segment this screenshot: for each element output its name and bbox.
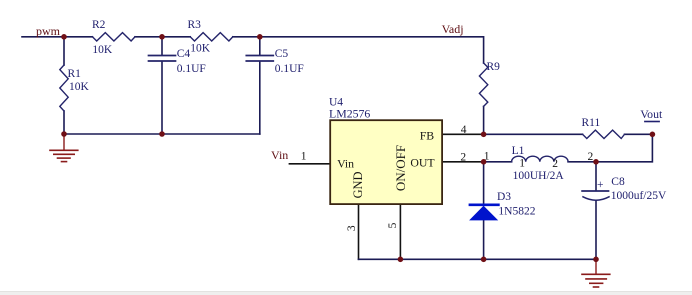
capacitor C5 xyxy=(246,48,303,75)
wire R2 to R3 xyxy=(135,36,190,38)
svg-text:1000uf/25V: 1000uf/25V xyxy=(611,190,667,202)
svg-text:R2: R2 xyxy=(92,19,106,31)
wire R1 bottom lead xyxy=(63,111,65,134)
junction at L1/C8 node xyxy=(593,159,599,165)
junction at D3 bottom rail xyxy=(481,257,487,263)
svg-text:C4: C4 xyxy=(177,48,191,60)
svg-text:OUT: OUT xyxy=(410,156,435,170)
wire OUT to L1 xyxy=(484,161,512,163)
resistor R9 xyxy=(479,61,500,106)
svg-text:10K: 10K xyxy=(190,43,211,55)
op-amp U4 LM2576 body xyxy=(329,97,442,205)
wire bottom rail left xyxy=(64,133,260,135)
wire C4 top lead xyxy=(161,37,163,55)
node Vout power port xyxy=(640,107,663,122)
junction at C4 bottom node xyxy=(159,131,165,137)
resistor R3 xyxy=(188,19,233,55)
capacitor C8 (polarized) xyxy=(582,176,667,202)
svg-text:Vin: Vin xyxy=(337,156,354,170)
bottom scrollbar strip xyxy=(0,291,692,295)
svg-text:1N5822: 1N5822 xyxy=(498,206,535,218)
svg-text:R9: R9 xyxy=(487,61,501,73)
diode D3 1N5822 xyxy=(470,191,536,220)
svg-text:R3: R3 xyxy=(188,19,202,31)
svg-text:L1: L1 xyxy=(512,145,525,157)
svg-text:ON/OFF: ON/OFF xyxy=(393,145,408,191)
junction at OUT/D3 node xyxy=(481,159,487,165)
svg-text:Vadj: Vadj xyxy=(442,22,464,36)
wire pin1 stub xyxy=(289,163,330,165)
svg-text:1: 1 xyxy=(519,158,525,170)
svg-text:2: 2 xyxy=(588,151,594,163)
resistor R11 xyxy=(582,117,625,139)
wire OUT pin stub xyxy=(442,161,484,163)
svg-text:FB: FB xyxy=(420,128,435,142)
junction at R2/R3/C4 node xyxy=(159,34,165,40)
wire pin3 stub xyxy=(358,204,360,259)
svg-text:C8: C8 xyxy=(611,176,625,188)
svg-text:5: 5 xyxy=(387,222,399,228)
svg-text:LM2576: LM2576 xyxy=(329,107,370,121)
ground (left, under R1) xyxy=(50,134,78,162)
svg-text:3: 3 xyxy=(346,225,358,231)
svg-text:2: 2 xyxy=(552,158,558,170)
wire C5 top lead xyxy=(259,37,261,55)
svg-text:+: + xyxy=(597,179,604,191)
junction at R1/ground node xyxy=(61,131,67,137)
wire R1 top lead xyxy=(63,37,65,65)
wire pin5 stub xyxy=(399,204,401,259)
svg-text:4: 4 xyxy=(461,124,467,136)
wire pwm input segment xyxy=(22,36,92,38)
svg-text:GND: GND xyxy=(351,172,365,199)
svg-text:pwm: pwm xyxy=(36,24,61,38)
wire Vout node down to output rail xyxy=(596,134,652,162)
capacitor C4 xyxy=(149,48,206,75)
junction at Vout node xyxy=(650,132,656,138)
svg-text:1: 1 xyxy=(301,151,307,163)
inductor L1 xyxy=(512,145,568,182)
junction at C8 bottom/ground xyxy=(593,257,599,263)
svg-text:0.1UF: 0.1UF xyxy=(177,63,206,75)
junction at pin5/bottom rail xyxy=(398,257,404,263)
wire C4 bottom lead xyxy=(161,62,163,134)
wire FB to R11 xyxy=(484,133,583,135)
svg-text:C5: C5 xyxy=(275,48,289,60)
junction at pwm/R1/R2 node xyxy=(61,34,67,40)
svg-text:R1: R1 xyxy=(68,68,82,80)
svg-text:0.1UF: 0.1UF xyxy=(275,63,304,75)
svg-text:D3: D3 xyxy=(497,191,511,203)
ground (right, under C8) xyxy=(582,259,610,287)
svg-text:Vin: Vin xyxy=(271,148,288,162)
wire bottom rail right xyxy=(359,258,597,260)
wire R9 bottom lead xyxy=(483,106,485,134)
wire FB pin stub xyxy=(442,133,484,135)
wire C8 bottom lead xyxy=(595,201,597,259)
svg-text:Vout: Vout xyxy=(640,107,663,121)
resistor R2 xyxy=(92,19,135,56)
svg-text:10K: 10K xyxy=(92,44,113,56)
junction at FB/R9 node xyxy=(481,132,487,138)
junction at R3/C5 node xyxy=(257,34,263,40)
svg-text:10K: 10K xyxy=(69,81,90,93)
wire C8 top lead xyxy=(595,162,597,191)
wire R11 to Vout node xyxy=(625,133,653,135)
svg-text:100UH/2A: 100UH/2A xyxy=(513,170,565,182)
wire R3 to Vadj corner xyxy=(233,37,484,63)
wire D3 bottom lead xyxy=(483,220,485,259)
wire C5 bottom lead xyxy=(259,62,261,134)
svg-text:R11: R11 xyxy=(582,117,601,129)
wire D3 top lead xyxy=(483,162,485,204)
resistor R1 xyxy=(60,65,90,111)
svg-text:2: 2 xyxy=(460,152,466,164)
wire L1 to C8 node xyxy=(568,161,596,163)
